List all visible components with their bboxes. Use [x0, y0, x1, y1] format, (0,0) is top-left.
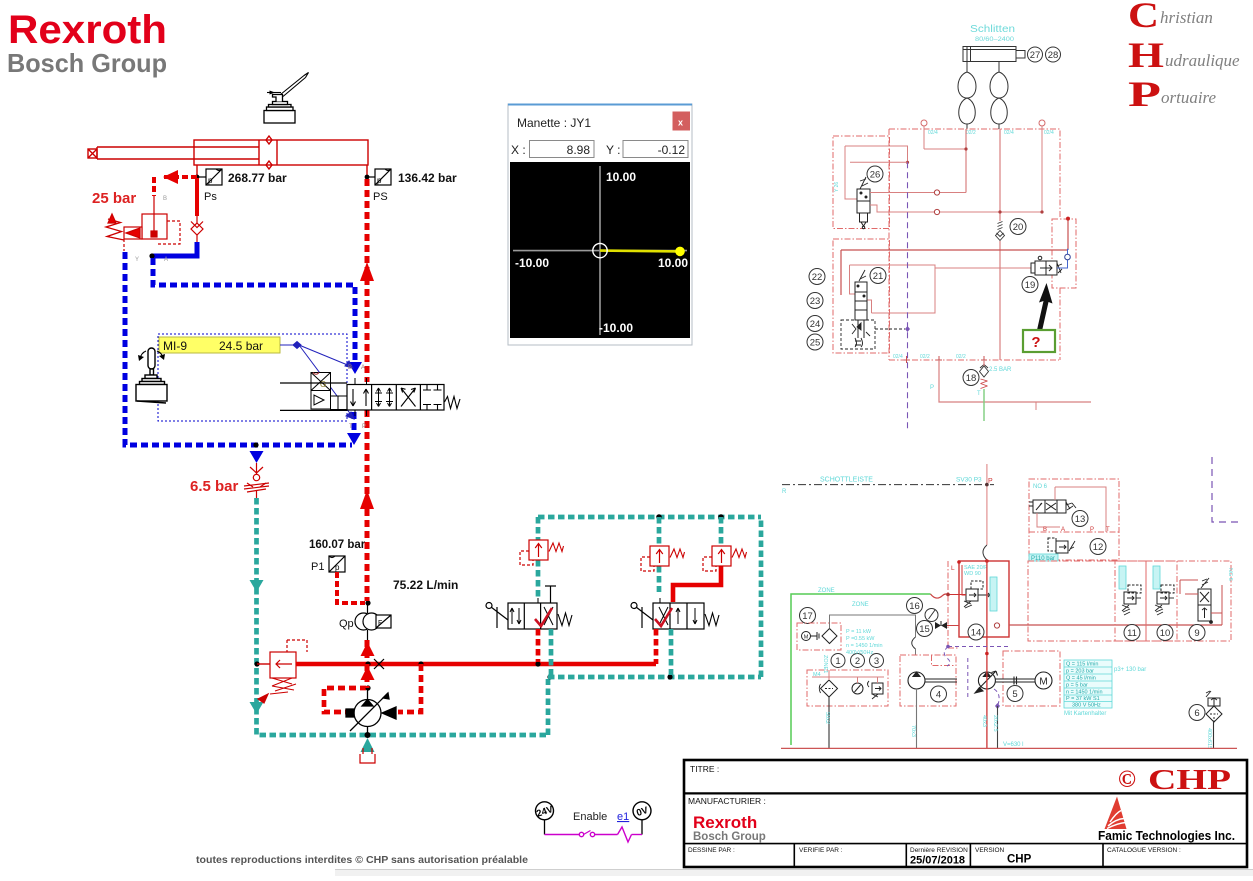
wire red thick solid rod-port down — [195, 178, 199, 216]
wire teal top rail — [538, 515, 761, 520]
joystick position dot — [675, 247, 685, 257]
salmon P drop to lower system — [986, 464, 988, 545]
X field — [530, 141, 595, 158]
svg-text:-0.12: -0.12 — [658, 143, 686, 157]
svg-text:P: P — [1090, 527, 1094, 533]
circle 6 — [1189, 705, 1205, 721]
svg-text:Enable: Enable — [573, 811, 607, 823]
salmon small circle node — [994, 623, 999, 628]
green drain line — [983, 389, 985, 421]
circle 12 — [1090, 539, 1106, 555]
main red distribution line — [1009, 624, 1222, 626]
svg-text:20: 20 — [1013, 222, 1024, 233]
valve comp13 — [1029, 500, 1076, 513]
svg-text:02/4: 02/4 — [1044, 130, 1054, 136]
wire teal drop to relief3 — [719, 517, 724, 546]
salmon line B-port riser — [999, 129, 1001, 221]
dashdot box comp19 — [1052, 219, 1076, 288]
svg-text:P =0.55 kW: P =0.55 kW — [846, 636, 875, 642]
proportional 4/3 valve pilot G block — [311, 373, 347, 410]
svg-text:VERSION: VERSION — [975, 847, 1005, 854]
pump5 variable — [975, 671, 1036, 693]
svg-text:TITRE :: TITRE : — [690, 764, 719, 774]
wire red V2 port down — [654, 629, 659, 664]
svg-text:Famic Technologies Inc.: Famic Technologies Inc. — [1098, 828, 1235, 843]
salmon elbow comp21 out — [867, 300, 872, 313]
circle 26 — [867, 166, 883, 182]
svg-text:Bosch Group: Bosch Group — [7, 48, 167, 78]
svg-text:Rexroth: Rexroth — [8, 8, 167, 52]
svg-text:02/4: 02/4 — [928, 130, 938, 136]
salmon link to comp19 — [935, 267, 1035, 269]
svg-text:ortuaire: ortuaire — [1161, 88, 1217, 107]
salmon line below comp20 — [999, 241, 1001, 360]
svg-text:10.00: 10.00 — [658, 256, 688, 270]
circle 5 — [1007, 686, 1023, 702]
Schlitten cylinder — [963, 47, 1025, 65]
svg-text:ZONE: ZONE — [818, 588, 835, 594]
circle 19 — [1022, 277, 1038, 293]
svg-text:Manette : JY1: Manette : JY1 — [517, 116, 591, 130]
svg-text:70x3: 70x3 — [910, 725, 916, 737]
filter comp1 diamond — [819, 680, 837, 697]
svg-text:©: © — [1118, 767, 1136, 793]
yellow label MI-9 — [159, 337, 280, 353]
svg-text:40x3: 40x3 — [981, 715, 987, 727]
red loop comp9 — [1180, 580, 1222, 625]
svg-text:23: 23 — [810, 296, 821, 307]
svg-text:P: P — [930, 385, 934, 391]
svg-text:H: H — [1128, 35, 1164, 75]
relief valve R1 — [520, 540, 564, 565]
svg-text:PS: PS — [373, 191, 388, 203]
svg-text:CHP: CHP — [1007, 854, 1032, 866]
svg-text:M: M — [804, 635, 809, 641]
svg-text:12: 12 — [1093, 542, 1104, 553]
circle 28 — [1046, 47, 1061, 62]
svg-text:P: P — [988, 478, 993, 485]
svg-text:400x615: 400x615 — [1206, 728, 1212, 749]
svg-text:5: 5 — [1012, 689, 1017, 700]
wire blue dashed valve T down — [352, 412, 357, 438]
svg-text:T: T — [1106, 527, 1110, 533]
relief valve 160bar — [258, 640, 307, 703]
svg-text:?: ? — [1031, 334, 1040, 351]
svg-text:02/2: 02/2 — [956, 354, 966, 360]
svg-text:02/2: 02/2 — [920, 354, 930, 360]
svg-text:21: 21 — [873, 271, 884, 282]
port letters — [1043, 527, 1110, 533]
blue link comp19 — [1057, 249, 1068, 268]
check mark V1 — [535, 608, 552, 626]
wire red below Qp — [365, 640, 370, 664]
svg-text:10.00: 10.00 — [606, 170, 636, 184]
salmon loop in NO6 — [1037, 487, 1106, 532]
circle 25 — [807, 334, 823, 350]
circle 9 — [1189, 625, 1205, 641]
svg-text:02/4: 02/4 — [893, 354, 903, 360]
svg-text:p = 5 bar: p = 5 bar — [1066, 683, 1088, 689]
svg-text:17: 17 — [802, 611, 813, 622]
joystick canvas — [510, 162, 690, 338]
svg-text:Q = 45 l/min: Q = 45 l/min — [1066, 676, 1096, 682]
black dashed pilot box comp24 — [841, 320, 889, 349]
P1 sensor — [329, 556, 345, 572]
wire blue dashed left tank branch — [125, 252, 352, 445]
cyan vertical pipe labels — [824, 712, 998, 737]
pilot check valve — [191, 216, 203, 243]
red frame box14 — [959, 561, 1009, 637]
comp24 inner symbols — [852, 323, 870, 347]
svg-text:p: p — [208, 176, 213, 185]
wire red case drain loop — [324, 688, 366, 712]
svg-text:SCHOTTLEISTE: SCHOTTLEISTE — [820, 477, 873, 484]
wire magenta with switch — [545, 827, 643, 842]
svg-text:P: P — [362, 424, 366, 430]
wire red dashed P riser lower — [365, 410, 370, 601]
svg-text:L: L — [951, 565, 955, 572]
circle 22 — [809, 269, 825, 285]
0V source — [633, 802, 651, 820]
circle 13 — [1072, 511, 1088, 527]
dashdot manifold bottom ports — [907, 356, 985, 363]
row divider 2 — [684, 843, 1247, 845]
salmon line manifold to P — [939, 360, 1091, 402]
big dashdot box 9-11 — [1028, 561, 1231, 641]
svg-text:6: 6 — [1194, 708, 1199, 719]
svg-text:02/2: 02/2 — [966, 130, 976, 136]
comp11 relief — [1122, 585, 1141, 615]
svg-text:n = 1450 1/min: n = 1450 1/min — [846, 643, 883, 649]
circle 16 — [907, 598, 923, 614]
cyan vertical label 10 — [1153, 566, 1160, 589]
gray sensing line — [830, 615, 916, 637]
svg-text:8.98: 8.98 — [567, 143, 591, 157]
circle 24 — [807, 316, 823, 332]
svg-text:160.07 bar: 160.07 bar — [309, 539, 366, 551]
svg-text:2.5 BAR: 2.5 BAR — [989, 367, 1012, 373]
svg-text:Y :: Y : — [606, 143, 620, 157]
svg-text:p: p — [377, 176, 382, 185]
svg-text:B: B — [1043, 527, 1047, 533]
svg-text:Rexroth: Rexroth — [693, 813, 757, 832]
circle 23 — [807, 293, 823, 309]
comp9 solenoid valve — [1198, 578, 1212, 623]
svg-text:ZONE1: ZONE1 — [822, 655, 828, 673]
svg-text:27: 27 — [1030, 50, 1041, 61]
dashdot box pump5 — [1003, 651, 1060, 706]
wire red thick supply horizontal — [296, 662, 656, 667]
svg-text:Y 26: Y 26 — [834, 182, 840, 192]
pressure sensor Ps — [197, 169, 222, 185]
salmon bus in box1-3 — [812, 670, 884, 683]
svg-text:400V/50Hz: 400V/50Hz — [846, 650, 873, 656]
variable displacement pump — [346, 688, 396, 735]
joystick deflection line — [600, 249, 680, 252]
dashdot box comp26 — [833, 136, 890, 229]
svg-text:18: 18 — [966, 373, 977, 384]
hose loops left — [958, 62, 967, 130]
dashdot box pump4 — [900, 655, 956, 706]
svg-text:Mit Kartenhalter: Mit Kartenhalter — [1064, 711, 1106, 717]
breather port left — [921, 120, 927, 126]
valve port labels — [348, 365, 366, 430]
cyan port labels top — [834, 130, 1054, 360]
comp12 valve — [1048, 538, 1075, 553]
hydraulic cylinder — [88, 136, 368, 175]
manual valve V1 — [486, 586, 572, 629]
svg-text:CATALOGUE VERSION :: CATALOGUE VERSION : — [1107, 847, 1181, 854]
svg-text:MI-9: MI-9 — [163, 339, 187, 353]
svg-text:10: 10 — [1160, 628, 1171, 639]
line jump arc 2 — [912, 637, 916, 649]
valve 21 black stack — [855, 270, 867, 338]
svg-text:14: 14 — [971, 628, 982, 639]
line jump arc — [983, 545, 987, 560]
svg-text:25 bar: 25 bar — [92, 190, 136, 207]
valve 26 black — [857, 177, 870, 229]
svg-text:hristian: hristian — [1160, 8, 1213, 27]
svg-text:B: B — [163, 196, 167, 202]
GROUP: enable circuit — [535, 802, 651, 842]
circle 1 — [831, 654, 845, 668]
salmon line comp26 out — [870, 192, 966, 194]
close button — [673, 112, 691, 131]
big black arrow — [1037, 283, 1053, 331]
circle 3 — [870, 654, 884, 668]
svg-text:R: R — [782, 489, 787, 495]
wire blue dashed B-line — [153, 258, 355, 368]
crosshair vertical — [599, 166, 601, 335]
svg-text:6.5 bar: 6.5 bar — [190, 478, 239, 495]
circle 15 — [917, 621, 933, 637]
wire red elbow relief3 to valve2 — [673, 564, 721, 602]
svg-text:24: 24 — [810, 319, 821, 330]
red line gauge to box14 — [947, 625, 959, 627]
svg-text:25/07/2018: 25/07/2018 — [910, 855, 965, 867]
pressure gauge — [925, 609, 938, 622]
svg-text:-10.00: -10.00 — [515, 256, 549, 270]
dashdot box comp17 — [797, 623, 841, 650]
dashdot box comps 21-25 — [833, 239, 890, 353]
svg-text:NG 6: NG 6 — [1227, 568, 1233, 581]
dashdot box comps 1-3 — [807, 670, 888, 706]
svg-text:CHP: CHP — [1148, 764, 1231, 796]
svg-text:24.5 bar: 24.5 bar — [219, 339, 263, 353]
svg-text:WD 90: WD 90 — [964, 571, 981, 577]
black dashed link to purple — [889, 328, 905, 330]
dashdot around box14 — [948, 561, 959, 648]
svg-text:A: A — [361, 365, 365, 371]
gauge comp2 — [852, 683, 863, 694]
svg-text:P = 11 kW: P = 11 kW — [846, 629, 872, 635]
comp6 breather — [1206, 691, 1222, 722]
svg-text:DESSINE PAR :: DESSINE PAR : — [688, 847, 735, 854]
svg-text:9: 9 — [1194, 628, 1199, 639]
wire red dashed P riser upper — [365, 179, 370, 382]
crosshair horizontal — [513, 250, 687, 252]
svg-text:M4: M4 — [813, 672, 821, 678]
red P drop through box14 — [986, 560, 988, 654]
svg-text:e1: e1 — [617, 811, 629, 823]
svg-text:15: 15 — [919, 624, 930, 635]
GROUP: left automation studio circuit — [88, 73, 761, 764]
taskbar strip — [335, 870, 1253, 877]
svg-text:T: T — [977, 391, 981, 397]
svg-text:toutes reproductions interdite: toutes reproductions interdites © CHP sa… — [196, 854, 528, 866]
purple node 2 — [995, 703, 1000, 709]
flow arrow teal down 2 — [250, 702, 264, 714]
circle 27 — [1028, 47, 1043, 62]
flow arrow up P lower — [360, 490, 374, 509]
svg-text:13: 13 — [1075, 514, 1086, 525]
comp17 level switch — [802, 629, 838, 644]
svg-text:25: 25 — [810, 338, 821, 349]
bottom cells dividers — [793, 844, 795, 867]
pump4 — [908, 672, 957, 689]
flow arrow teal down 1 — [250, 580, 264, 592]
svg-text:20x2.5: 20x2.5 — [992, 715, 998, 732]
cyan vertical label box14 — [990, 577, 997, 611]
svg-text:2: 2 — [855, 656, 860, 667]
subcircuit dotted box — [158, 334, 347, 421]
outer border — [684, 760, 1247, 867]
svg-text:26: 26 — [870, 170, 881, 181]
purple dashed L right — [1212, 457, 1238, 522]
red link to box14 — [948, 594, 966, 596]
purple dashed vertical — [907, 162, 909, 429]
GROUP: right scanned schematic lower — [781, 457, 1238, 749]
circle 18 — [963, 370, 979, 386]
gray port letters near counterbalance — [135, 196, 168, 263]
svg-text:VERIFIE PAR :: VERIFIE PAR : — [799, 847, 843, 854]
wire teal return riser valve1 — [546, 679, 551, 735]
dashdot manifold outline — [889, 129, 1060, 360]
motor M — [1035, 672, 1052, 689]
wire thin red relief to teal — [257, 663, 270, 665]
purple drain network — [944, 647, 1008, 707]
flow arrow down to breather — [250, 451, 264, 463]
svg-text:X :: X : — [511, 143, 526, 157]
salmon line comp26 drain — [870, 205, 1042, 212]
junction dot on schott — [985, 483, 989, 487]
svg-text:16: 16 — [909, 601, 920, 612]
comp6 drop — [1213, 722, 1215, 748]
svg-text:udraulique: udraulique — [1165, 51, 1240, 70]
proportional 4/3 valve body — [280, 378, 460, 416]
svg-text:Y: Y — [135, 257, 139, 263]
tank symbol — [360, 748, 375, 763]
svg-text:22: 22 — [812, 272, 823, 283]
svg-text:380 V 50Hz: 380 V 50Hz — [1072, 703, 1101, 709]
comp14 relief valve — [964, 581, 990, 608]
subbox 11 — [1115, 561, 1146, 641]
wire teal V1 port down — [549, 629, 554, 675]
svg-text:Qp: Qp — [339, 618, 354, 630]
kw cyan text block — [846, 629, 883, 656]
wire red V1 port down — [536, 629, 541, 662]
svg-text:n = 1450 1/min: n = 1450 1/min — [1066, 690, 1103, 696]
svg-text:3: 3 — [874, 656, 879, 667]
svg-text:80/60–2400: 80/60–2400 — [975, 36, 1014, 43]
circle 20 — [1010, 219, 1026, 235]
relief valve R3 — [703, 546, 747, 571]
flow arrow down into valve B — [348, 362, 362, 374]
svg-text:T: T — [349, 424, 353, 430]
wire teal V2 port down — [669, 629, 674, 675]
flow arrow left — [163, 170, 178, 184]
SCHOTTLEISTE dash-dot line — [782, 484, 994, 486]
flow arrow down T — [347, 433, 361, 445]
label link lines — [280, 342, 354, 420]
P110 bar cyan box — [1029, 554, 1058, 561]
svg-text:75.22 L/min: 75.22 L/min — [393, 578, 458, 592]
wire black 24V drop — [544, 820, 546, 835]
strong red line to comp19 — [841, 219, 1068, 295]
load icon (oiler) on cylinder — [264, 73, 309, 124]
center circle — [593, 243, 607, 257]
svg-text:136.42 bar: 136.42 bar — [398, 171, 457, 185]
24V source — [536, 802, 554, 820]
GROUP: right scanned schematic upper — [782, 24, 1091, 560]
svg-text:Q = 115 l/min: Q = 115 l/min — [1066, 662, 1098, 668]
gray suction pump4 — [916, 689, 918, 748]
svg-text:19: 19 — [1025, 280, 1036, 291]
shutoff bowtie — [935, 622, 947, 629]
wire black 0V drop — [641, 820, 643, 835]
salmon stub — [1035, 402, 1037, 410]
counterbalance valve body — [106, 196, 180, 251]
svg-text:1: 1 — [835, 656, 840, 667]
svg-text:x: x — [678, 118, 683, 128]
cyan vertical label 11 — [1119, 566, 1126, 589]
svg-text:A: A — [164, 257, 168, 263]
svg-text:268.77 bar: 268.77 bar — [228, 171, 287, 185]
flow arrow up P riser — [360, 262, 374, 281]
svg-text:28: 28 — [1048, 50, 1059, 61]
tank breather 6.5bar — [244, 463, 269, 498]
valve comp3 — [868, 681, 884, 699]
GROUP: bottom strip — [335, 870, 1253, 877]
dashdot ports line NO6 — [1029, 531, 1119, 533]
svg-text:C: C — [1128, 0, 1159, 35]
flow meter Qp — [355, 603, 391, 640]
svg-text:Bosch Group: Bosch Group — [693, 831, 766, 843]
wire teal return horizontal — [548, 675, 761, 680]
window top accent — [508, 104, 692, 106]
svg-text:M: M — [1039, 677, 1047, 688]
spec table cyan — [1064, 660, 1112, 709]
circle 4 — [931, 686, 947, 702]
tank bottom line — [781, 747, 1237, 749]
dark drain drop — [997, 706, 999, 748]
red hose arc — [931, 594, 949, 598]
wire teal drop to relief1 — [536, 517, 541, 600]
circle 17 — [800, 608, 816, 624]
svg-text:G: G — [320, 380, 326, 389]
comp18 check with spring — [980, 365, 989, 378]
flow arrow up pump out — [361, 666, 375, 680]
green L line — [791, 594, 931, 745]
GROUP: title block — [684, 760, 1247, 867]
svg-text:MANUFACTURIER :: MANUFACTURIER : — [688, 796, 766, 806]
wire red dashed to counterbalance — [163, 175, 197, 179]
flow arrow up below Qp — [361, 642, 375, 656]
salmon loop line 2 — [850, 161, 908, 163]
svg-text:NO 6: NO 6 — [1033, 484, 1048, 490]
svg-text:11: 11 — [1127, 628, 1137, 639]
wire teal drop to relief2 — [657, 517, 662, 592]
